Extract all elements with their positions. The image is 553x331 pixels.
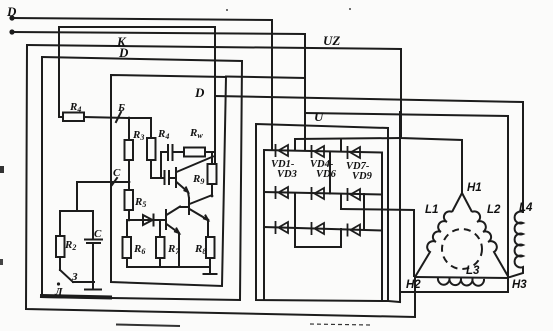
svg-text:D: D (194, 85, 205, 100)
svg-text:R5: R5 (134, 196, 146, 209)
svg-text:R4: R4 (157, 128, 169, 141)
svg-text:VD9: VD9 (352, 171, 373, 182)
svg-text:R4: R4 (69, 101, 81, 114)
svg-text:L3: L3 (466, 265, 480, 277)
svg-text:R8: R8 (194, 243, 206, 256)
svg-text:Б: Б (117, 102, 125, 114)
svg-text:VD6: VD6 (316, 169, 337, 180)
svg-text:R6: R6 (133, 243, 145, 256)
svg-text:L1: L1 (425, 204, 438, 216)
svg-text:R9: R9 (192, 173, 204, 186)
svg-text:R2: R2 (64, 239, 76, 252)
svg-text:R3: R3 (132, 129, 144, 142)
svg-text:H2: H2 (406, 279, 421, 291)
svg-text:L2: L2 (487, 204, 501, 216)
svg-text:U: U (314, 109, 324, 124)
svg-text:H1: H1 (467, 182, 482, 194)
svg-text:Rw: Rw (189, 127, 203, 140)
svg-text:C: C (113, 167, 121, 179)
svg-text:D: D (6, 4, 17, 19)
svg-text:UZ: UZ (323, 33, 340, 48)
svg-text:D: D (118, 45, 129, 60)
svg-text:VD3: VD3 (277, 169, 297, 180)
svg-text:C: C (94, 228, 102, 240)
svg-text:З: З (71, 271, 78, 283)
svg-text:Л: Л (54, 286, 63, 298)
svg-text:L4: L4 (519, 202, 533, 214)
svg-text:H3: H3 (512, 279, 527, 291)
